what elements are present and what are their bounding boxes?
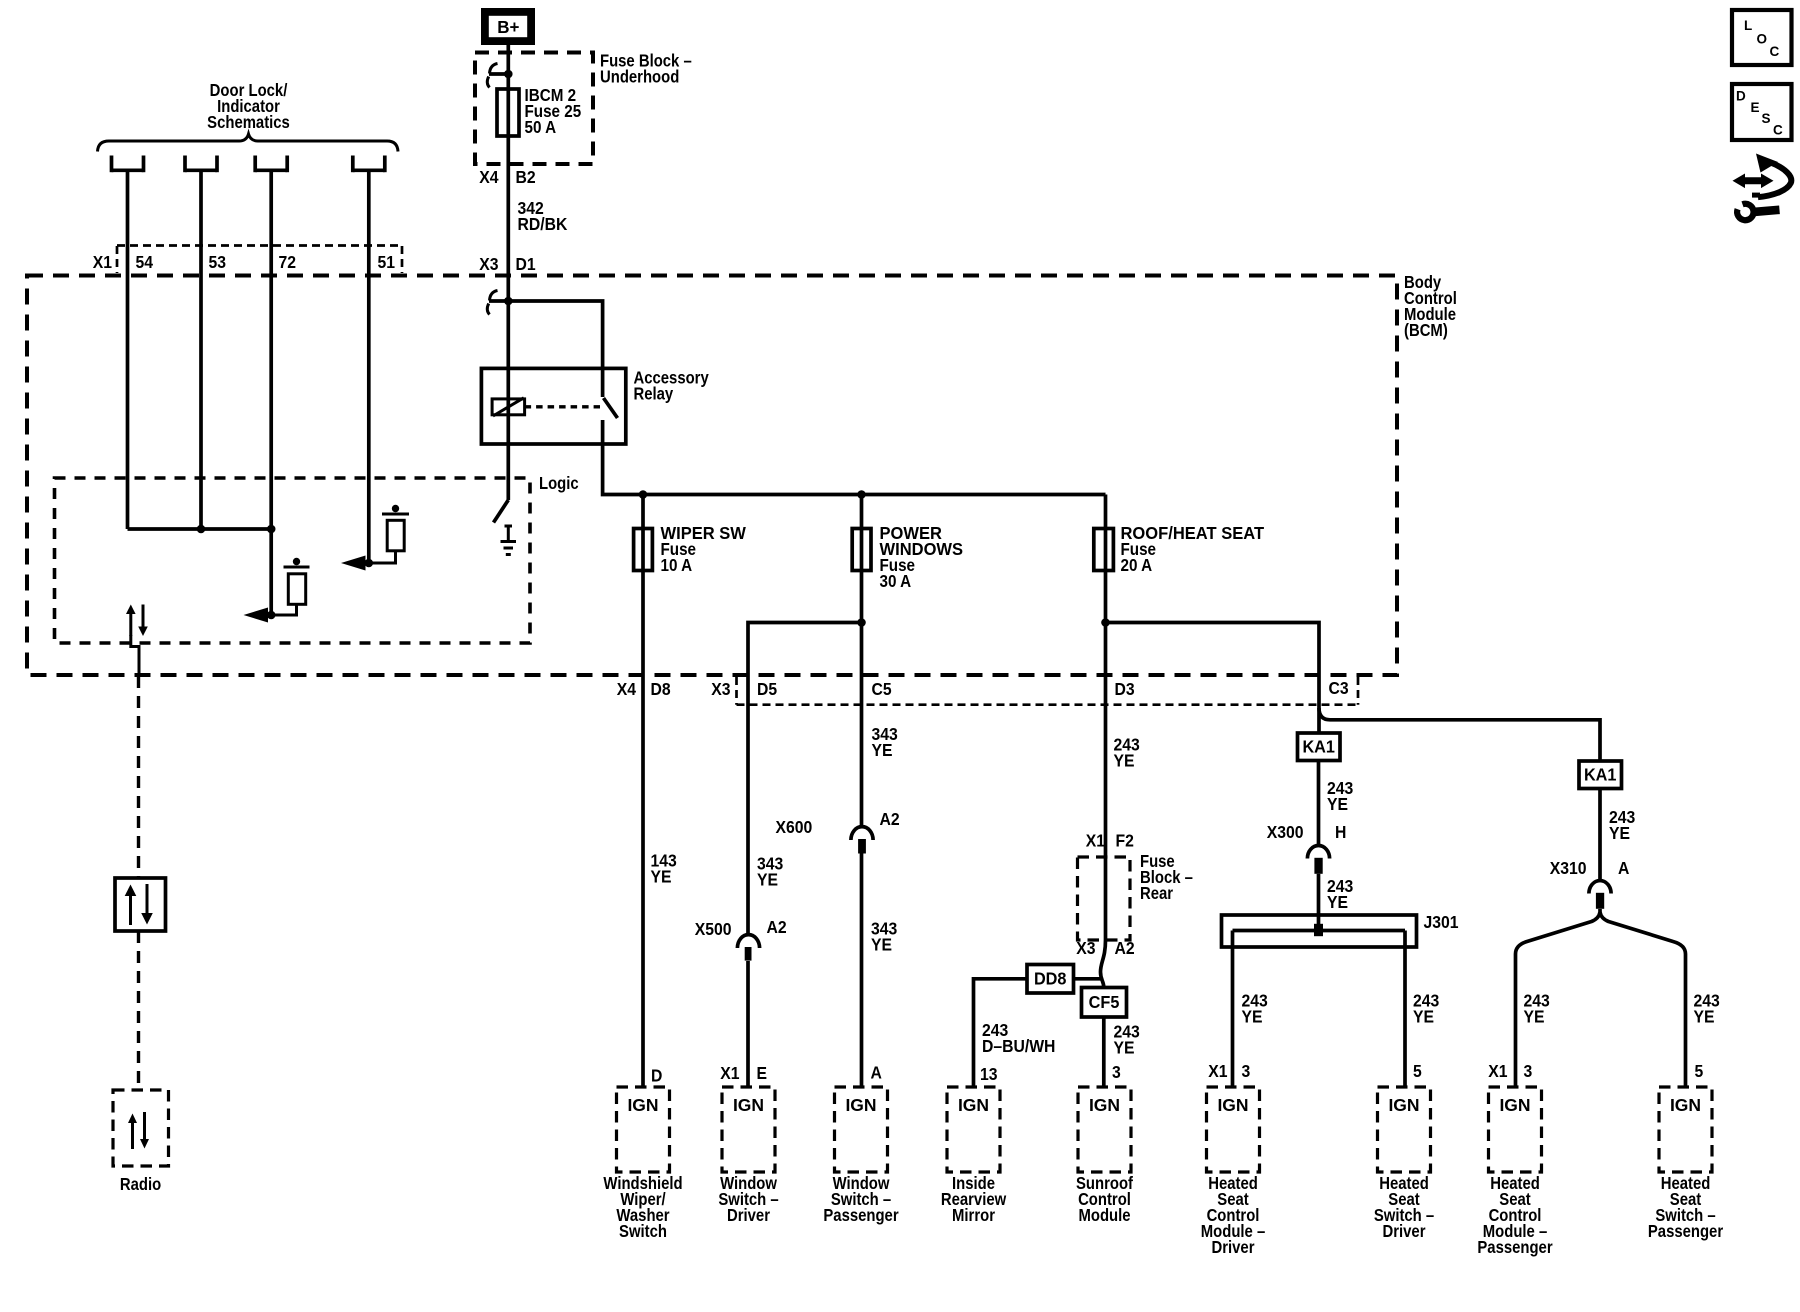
svg-text:3: 3 <box>1112 1062 1121 1082</box>
svg-text:A2: A2 <box>767 917 787 937</box>
svg-text:O: O <box>1757 32 1768 47</box>
svg-text:X3: X3 <box>711 679 730 699</box>
svg-text:DD8: DD8 <box>1034 969 1067 989</box>
svg-text:J301: J301 <box>1424 912 1459 932</box>
svg-text:A2: A2 <box>1115 938 1135 958</box>
svg-text:13: 13 <box>980 1064 998 1084</box>
svg-text:5: 5 <box>1695 1061 1704 1081</box>
svg-text:CF5: CF5 <box>1089 992 1120 1012</box>
svg-text:53: 53 <box>209 252 227 272</box>
svg-text:A2: A2 <box>880 809 900 829</box>
svg-text:HeatedSeatSwitch –Driver: HeatedSeatSwitch –Driver <box>1374 1174 1434 1241</box>
svg-text:54: 54 <box>136 252 154 272</box>
svg-text:KA1: KA1 <box>1302 737 1335 757</box>
svg-text:D5: D5 <box>757 679 777 699</box>
svg-text:IGN: IGN <box>1670 1095 1701 1115</box>
svg-text:A: A <box>1618 858 1629 878</box>
svg-text:L: L <box>1744 18 1752 33</box>
svg-text:C3: C3 <box>1329 678 1349 698</box>
svg-text:X3: X3 <box>1076 938 1095 958</box>
svg-text:X4: X4 <box>479 167 499 187</box>
svg-text:D3: D3 <box>1115 679 1135 699</box>
svg-text:D1: D1 <box>516 254 536 274</box>
svg-text:SunroofControlModule: SunroofControlModule <box>1076 1174 1134 1225</box>
svg-text:X4: X4 <box>617 679 637 699</box>
svg-text:3: 3 <box>1524 1061 1533 1081</box>
svg-text:H: H <box>1335 822 1346 842</box>
svg-text:IGN: IGN <box>958 1095 989 1115</box>
svg-text:Fuse20 A: Fuse20 A <box>1121 540 1157 575</box>
svg-text:IGN: IGN <box>1388 1095 1419 1115</box>
svg-text:IGN: IGN <box>627 1095 658 1115</box>
svg-text:WindowSwitch –Driver: WindowSwitch –Driver <box>718 1174 778 1225</box>
svg-text:X310: X310 <box>1550 858 1587 878</box>
svg-text:IGN: IGN <box>845 1095 876 1115</box>
svg-text:Fuse Block –Underhood: Fuse Block –Underhood <box>600 51 692 86</box>
svg-text:Logic: Logic <box>539 474 579 493</box>
svg-text:72: 72 <box>279 252 297 272</box>
svg-text:KA1: KA1 <box>1584 765 1617 785</box>
svg-text:Fuse10 A: Fuse10 A <box>661 540 697 575</box>
svg-text:A: A <box>871 1063 882 1083</box>
svg-text:C: C <box>1773 123 1783 138</box>
svg-text:D: D <box>651 1066 662 1086</box>
svg-text:Fuse30 A: Fuse30 A <box>880 556 916 591</box>
svg-text:D8: D8 <box>651 679 671 699</box>
svg-text:F2: F2 <box>1116 831 1134 851</box>
svg-text:51: 51 <box>378 252 396 272</box>
svg-text:IGN: IGN <box>1217 1095 1248 1115</box>
svg-text:X600: X600 <box>776 817 813 837</box>
svg-text:3: 3 <box>1242 1061 1251 1081</box>
svg-text:B2: B2 <box>516 167 536 187</box>
svg-text:X3: X3 <box>479 254 498 274</box>
svg-text:X1: X1 <box>1086 831 1105 851</box>
svg-text:X1: X1 <box>1208 1061 1227 1081</box>
svg-text:C5: C5 <box>872 679 892 699</box>
svg-text:X1: X1 <box>93 252 112 272</box>
svg-text:IGN: IGN <box>1499 1095 1530 1115</box>
svg-text:X1: X1 <box>1488 1061 1507 1081</box>
svg-text:Radio: Radio <box>120 1175 161 1194</box>
svg-text:WindowSwitch –Passenger: WindowSwitch –Passenger <box>823 1174 899 1225</box>
svg-text:E: E <box>1751 100 1760 115</box>
svg-text:Door Lock/IndicatorSchematics: Door Lock/IndicatorSchematics <box>207 81 290 132</box>
svg-text:S: S <box>1762 111 1771 126</box>
svg-text:5: 5 <box>1413 1061 1422 1081</box>
svg-text:X500: X500 <box>695 919 732 939</box>
svg-text:E: E <box>757 1063 767 1083</box>
svg-text:X300: X300 <box>1267 822 1304 842</box>
svg-text:IGN: IGN <box>1089 1095 1120 1115</box>
svg-text:C: C <box>1770 44 1780 59</box>
svg-text:X1: X1 <box>720 1063 739 1083</box>
svg-text:IGN: IGN <box>733 1095 764 1115</box>
svg-text:D: D <box>1736 89 1746 104</box>
svg-text:B+: B+ <box>497 17 519 37</box>
